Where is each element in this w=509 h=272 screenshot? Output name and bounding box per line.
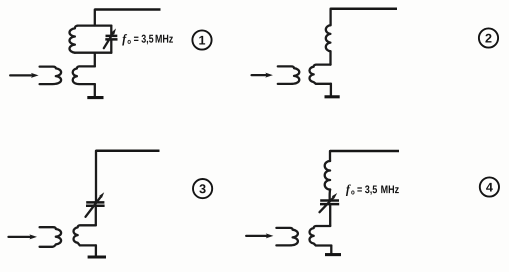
variable capacitor (circuit 3) trimmer arrow [86,198,101,217]
transformer secondary L2 (2 bumps, bulge left) [73,66,95,84]
wire: output line top of circuit 4 [330,150,399,153]
input arrow (circuit 4) [246,235,268,237]
input arrow (circuit 2) [252,74,268,76]
variable capacitor (circuit 3) plates [86,202,105,205]
input arrow (circuit 3) [9,236,32,238]
wire: vertical from output line to coil [329,9,331,26]
node label: circled 1 [192,30,211,49]
wire: vertical from tank bottom to secondary [94,53,96,67]
wire: tank top conductor [78,24,112,26]
wire: tank bottom conductor [75,52,111,54]
ground (circuit 4) [325,253,341,256]
transformer primary (coupling loop, 2 bumps, bulge right) [40,67,61,85]
node label: circled 2 [479,28,498,47]
wire: output line top of circuit 2 [331,7,397,10]
input arrow (circuit 1) [10,74,33,76]
wire: output line top of circuit 1 [95,8,161,11]
transformer secondary (circuit 2, 2 bumps, bulge left) [309,65,330,84]
transformer primary (circuit 3, 2 bumps, bulge right) [40,227,61,247]
wire: vertical from coil to secondary [329,51,331,64]
value label f0 = 3,5 MHz (circuit 1) [122,34,127,45]
inductor L (circuit 2, 3 bumps on vertical wire) [326,25,331,51]
wire: tank right branch lower [110,41,112,53]
transformer secondary (circuit 4, 2 bumps, bulge left) [309,226,331,246]
wire: vertical from output line to capacitor [95,151,97,201]
wire: vertical from output line to tank top [94,10,96,26]
transformer secondary (circuit 3, 2 bumps, bulge left) [73,225,95,245]
variable capacitor C1 trimmer arrow [104,34,113,49]
ground (circuit 3) [88,255,106,258]
wire: vertical from output line to coil (circuit 4) [329,151,331,161]
wire: output line top of circuit 3 [96,150,160,153]
ground (circuit 1) [87,96,103,99]
node label: circled 3 [193,179,212,198]
wire: vertical from secondary to ground [94,84,96,96]
transformer primary (circuit 2, 2 bumps, bulge right) [278,66,299,84]
wire: vertical from secondary to ground (circuit 3) [95,245,97,255]
node label: circled 4 [480,177,499,196]
variable capacitor (circuit 4) plates [320,201,339,205]
ground (circuit 2) [325,95,340,98]
wire: tank right branch upper [110,26,112,35]
wire: vertical from coil to capacitor (circuit 4) [328,190,331,200]
variable capacitor C1 plates [105,36,117,40]
wire: vertical from capacitor to secondary (circuit 3) [95,207,97,225]
wire: vertical from secondary to ground (circuit 4) [330,246,332,254]
variable capacitor (circuit 4) trimmer arrow [320,198,334,213]
value label f0 = 3,5 MHz (circuit 4) [346,185,351,196]
transformer primary (circuit 4, 2 bumps, bulge right) [276,228,297,246]
wire: vertical from capacitor to secondary (circuit 4) [329,205,331,226]
wire: vertical from secondary to ground (circuit 2) [330,84,332,96]
inductor L1 (tank coil, 3 bumps) [69,26,77,53]
inductor L (circuit 4, 3 bumps on vertical wire) [325,161,330,190]
